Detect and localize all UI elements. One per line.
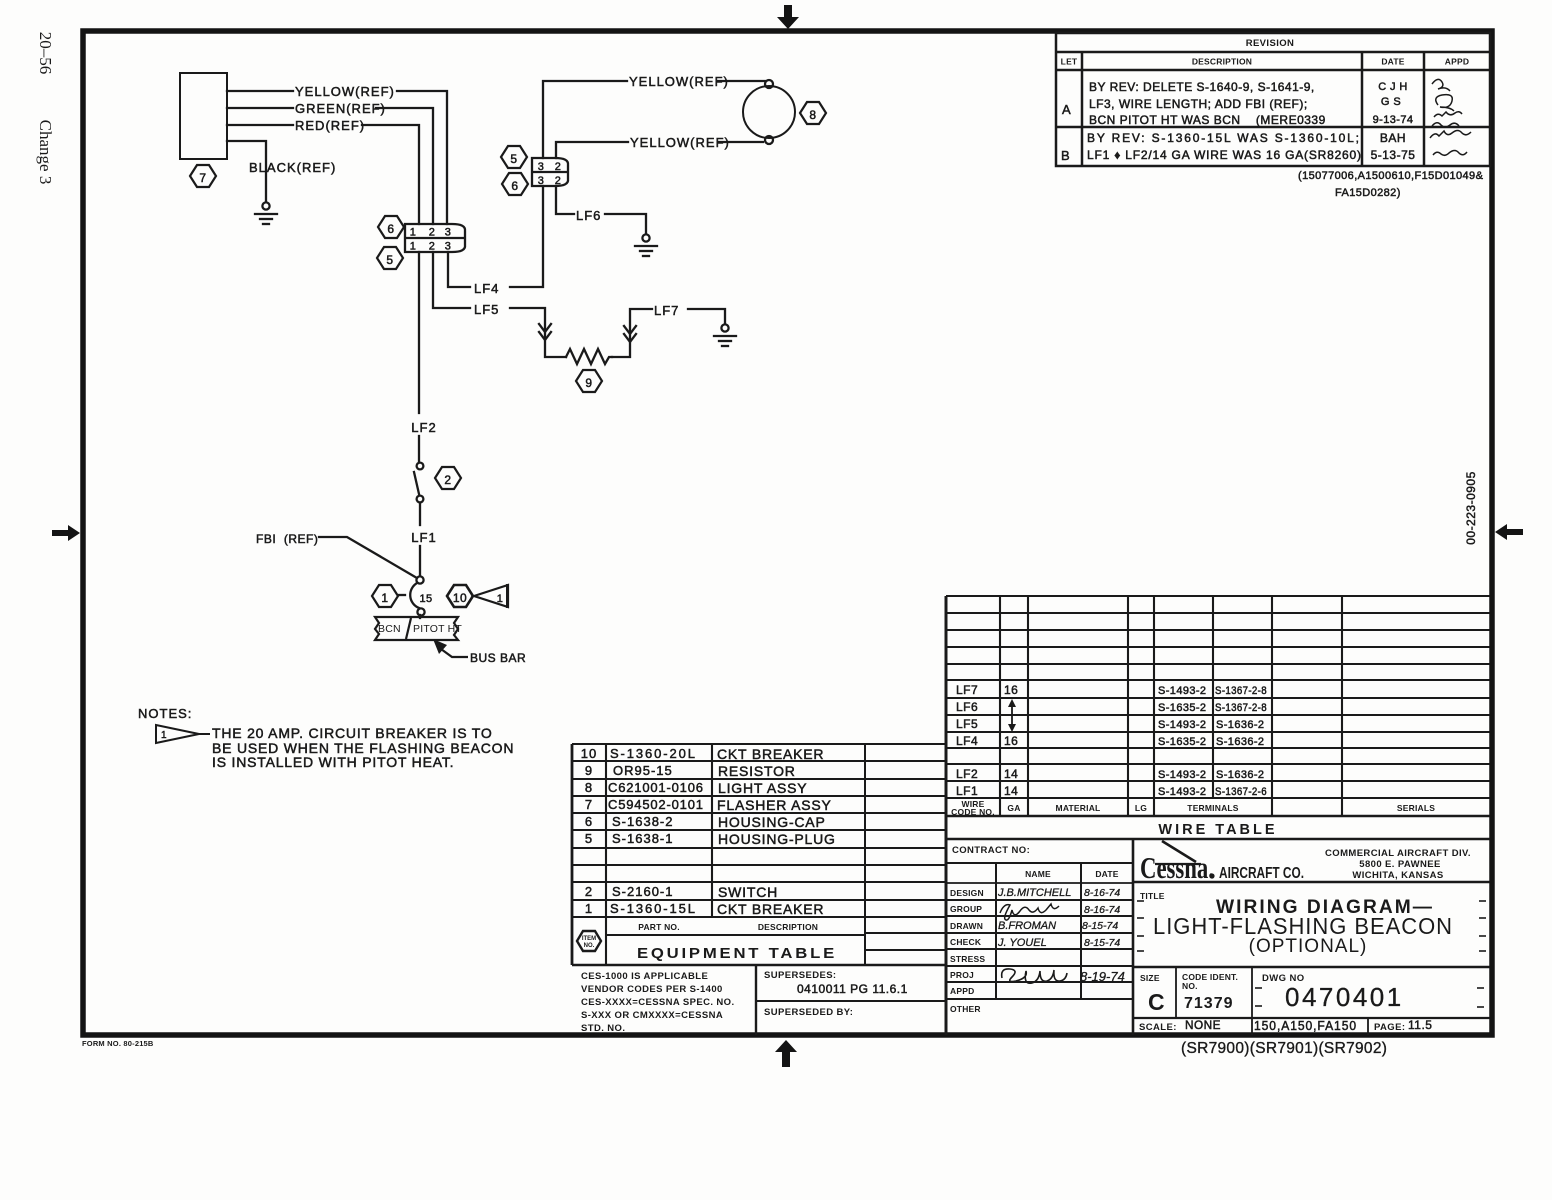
svg-text:15: 15 bbox=[419, 593, 432, 605]
svg-text:00-223-0905: 00-223-0905 bbox=[1464, 471, 1478, 545]
svg-text:STD. NO.: STD. NO. bbox=[581, 1023, 625, 1034]
svg-text:NO.: NO. bbox=[584, 943, 595, 949]
svg-text:DRAWN: DRAWN bbox=[950, 921, 983, 931]
svg-text:1: 1 bbox=[497, 593, 504, 605]
svg-text:8: 8 bbox=[585, 780, 593, 795]
svg-text:7: 7 bbox=[585, 797, 593, 812]
svg-text:APPD: APPD bbox=[1445, 57, 1469, 67]
svg-text:20–56: 20–56 bbox=[36, 32, 55, 75]
svg-text:AIRCRAFT CO.: AIRCRAFT CO. bbox=[1219, 865, 1304, 882]
svg-text:CKT BREAKER: CKT BREAKER bbox=[717, 901, 824, 917]
svg-text:2: 2 bbox=[555, 161, 562, 173]
svg-text:HOUSING-CAP: HOUSING-CAP bbox=[718, 814, 826, 830]
svg-text:GREEN(REF): GREEN(REF) bbox=[295, 101, 386, 116]
svg-text:1: 1 bbox=[410, 227, 417, 239]
svg-text:BY REV: DELETE S-1640-9, S-164: BY REV: DELETE S-1640-9, S-1641-9, bbox=[1089, 80, 1315, 94]
svg-text:71379: 71379 bbox=[1184, 995, 1234, 1012]
svg-text:8-19-74: 8-19-74 bbox=[1080, 969, 1125, 984]
svg-text:LF4: LF4 bbox=[956, 734, 978, 748]
svg-text:APPD: APPD bbox=[950, 986, 974, 996]
svg-text:J.B.MITCHELL: J.B.MITCHELL bbox=[997, 887, 1071, 899]
svg-text:S-1636-2: S-1636-2 bbox=[1216, 736, 1264, 748]
svg-text:FLASHER ASSY: FLASHER ASSY bbox=[717, 797, 832, 813]
svg-text:LF1 ♦ LF2/14 GA WIRE WAS 16 GA: LF1 ♦ LF2/14 GA WIRE WAS 16 GA(SR8260) bbox=[1087, 148, 1361, 162]
svg-text:DESCRIPTION: DESCRIPTION bbox=[758, 922, 818, 932]
svg-text:1: 1 bbox=[161, 730, 167, 741]
svg-text:5: 5 bbox=[585, 831, 593, 846]
svg-text:S-1635-2: S-1635-2 bbox=[1158, 736, 1206, 748]
svg-text:2: 2 bbox=[585, 884, 593, 899]
svg-text:SWITCH: SWITCH bbox=[718, 884, 778, 900]
svg-text:TERMINALS: TERMINALS bbox=[1187, 803, 1239, 813]
svg-text:8: 8 bbox=[809, 108, 816, 122]
svg-text:DESCRIPTION: DESCRIPTION bbox=[1192, 57, 1252, 67]
svg-text:0470401: 0470401 bbox=[1285, 982, 1404, 1012]
svg-text:S-1638-1: S-1638-1 bbox=[612, 831, 673, 846]
svg-text:2: 2 bbox=[429, 227, 436, 239]
svg-text:3: 3 bbox=[538, 161, 545, 173]
svg-text:1: 1 bbox=[381, 591, 388, 605]
svg-text:LF4: LF4 bbox=[474, 281, 499, 296]
svg-text:BY REV: S-1360-15L WAS S-1360-: BY REV: S-1360-15L WAS S-1360-10L; bbox=[1087, 131, 1359, 145]
svg-text:BUS BAR: BUS BAR bbox=[470, 651, 526, 665]
svg-text:DESIGN: DESIGN bbox=[950, 888, 984, 898]
svg-text:C594502-0101: C594502-0101 bbox=[608, 797, 704, 812]
svg-text:11.5: 11.5 bbox=[1408, 1018, 1432, 1032]
svg-text:S-1636-2: S-1636-2 bbox=[1216, 719, 1264, 731]
svg-text:3: 3 bbox=[445, 227, 452, 239]
svg-text:YELLOW(REF): YELLOW(REF) bbox=[629, 74, 729, 89]
svg-text:VENDOR CODES PER S-1400: VENDOR CODES PER S-1400 bbox=[581, 984, 723, 995]
svg-text:9: 9 bbox=[585, 763, 593, 778]
svg-text:LET: LET bbox=[1061, 57, 1078, 67]
svg-text:TITLE: TITLE bbox=[1140, 891, 1165, 901]
svg-text:OTHER: OTHER bbox=[950, 1004, 981, 1014]
svg-text:S-XXX OR CMXXXX=CESSNA: S-XXX OR CMXXXX=CESSNA bbox=[581, 1010, 723, 1021]
svg-text:5: 5 bbox=[510, 152, 517, 166]
svg-text:HOUSING-PLUG: HOUSING-PLUG bbox=[718, 831, 836, 847]
svg-text:9: 9 bbox=[585, 376, 592, 390]
svg-text:DATE: DATE bbox=[1095, 869, 1118, 879]
svg-text:YELLOW(REF): YELLOW(REF) bbox=[295, 84, 395, 99]
svg-text:BCN: BCN bbox=[378, 623, 401, 635]
svg-text:NAME: NAME bbox=[1025, 869, 1051, 879]
svg-text:G S: G S bbox=[1381, 96, 1401, 108]
svg-text:IS INSTALLED WITH PITOT HEAT.: IS INSTALLED WITH PITOT HEAT. bbox=[212, 754, 454, 770]
svg-text:LG: LG bbox=[1135, 803, 1147, 813]
svg-text:PITOT HT: PITOT HT bbox=[413, 623, 462, 635]
svg-text:WICHITA, KANSAS: WICHITA, KANSAS bbox=[1352, 870, 1443, 881]
svg-text:5800 E. PAWNEE: 5800 E. PAWNEE bbox=[1359, 859, 1440, 870]
svg-text:RED(REF): RED(REF) bbox=[295, 118, 365, 133]
svg-text:RESISTOR: RESISTOR bbox=[718, 763, 796, 779]
svg-text:EQUIPMENT TABLE: EQUIPMENT TABLE bbox=[637, 945, 837, 962]
svg-text:CES-XXXX=CESSNA SPEC. NO.: CES-XXXX=CESSNA SPEC. NO. bbox=[581, 997, 735, 1008]
svg-text:CKT BREAKER: CKT BREAKER bbox=[717, 746, 824, 762]
svg-text:MATERIAL: MATERIAL bbox=[1056, 803, 1101, 813]
svg-text:PROJ: PROJ bbox=[950, 970, 974, 980]
svg-text:0410011 PG 11.6.1: 0410011 PG 11.6.1 bbox=[797, 982, 908, 996]
svg-text:8-16-74: 8-16-74 bbox=[1084, 887, 1120, 899]
svg-text:CONTRACT NO:: CONTRACT NO: bbox=[952, 845, 1030, 856]
svg-text:S-1493-2: S-1493-2 bbox=[1158, 685, 1206, 697]
svg-text:S-1360-15L: S-1360-15L bbox=[610, 901, 696, 916]
svg-text:S-2160-1: S-2160-1 bbox=[612, 884, 673, 899]
svg-text:6: 6 bbox=[585, 814, 593, 829]
svg-text:9-13-74: 9-13-74 bbox=[1373, 114, 1414, 126]
svg-text:LF5: LF5 bbox=[956, 717, 978, 731]
svg-text:SCALE:: SCALE: bbox=[1139, 1022, 1177, 1033]
svg-text:7: 7 bbox=[199, 171, 206, 185]
svg-text:S-1367-2-8: S-1367-2-8 bbox=[1215, 702, 1267, 714]
svg-text:Cessna.: Cessna. bbox=[1140, 850, 1214, 885]
svg-text:6: 6 bbox=[387, 222, 394, 236]
svg-text:SERIALS: SERIALS bbox=[1397, 803, 1435, 813]
svg-text:C621001-0106: C621001-0106 bbox=[608, 780, 704, 795]
svg-text:3: 3 bbox=[538, 175, 545, 187]
svg-text:8-15-74: 8-15-74 bbox=[1082, 920, 1118, 932]
svg-text:S-1493-2: S-1493-2 bbox=[1158, 769, 1206, 781]
svg-text:LF7: LF7 bbox=[956, 683, 978, 697]
svg-text:J. YOUEL: J. YOUEL bbox=[997, 937, 1047, 949]
svg-text:LF6: LF6 bbox=[576, 208, 601, 223]
svg-text:2: 2 bbox=[444, 473, 451, 487]
svg-text:S-1360-20L: S-1360-20L bbox=[610, 746, 696, 761]
svg-text:A: A bbox=[1062, 102, 1072, 117]
svg-text:LF3, WIRE LENGTH; ADD FBI (REF: LF3, WIRE LENGTH; ADD FBI (REF); bbox=[1089, 97, 1308, 111]
svg-text:3: 3 bbox=[445, 241, 452, 253]
svg-text:CES-1000 IS APPLICABLE: CES-1000 IS APPLICABLE bbox=[581, 971, 708, 982]
svg-text:ITEM: ITEM bbox=[582, 936, 596, 942]
svg-text:6: 6 bbox=[511, 179, 518, 193]
svg-text:BLACK(REF): BLACK(REF) bbox=[249, 160, 336, 175]
svg-text:NONE: NONE bbox=[1185, 1018, 1221, 1032]
svg-text:S-1636-2: S-1636-2 bbox=[1216, 769, 1264, 781]
svg-text:10: 10 bbox=[453, 591, 467, 605]
svg-text:LF6: LF6 bbox=[956, 700, 978, 714]
svg-text:C J H: C J H bbox=[1378, 81, 1408, 93]
svg-text:PART NO.: PART NO. bbox=[638, 922, 680, 932]
svg-text:14: 14 bbox=[1004, 784, 1018, 798]
svg-text:S-1493-2: S-1493-2 bbox=[1158, 786, 1206, 798]
svg-text:LF1: LF1 bbox=[956, 784, 978, 798]
svg-text:COMMERCIAL AIRCRAFT DIV.: COMMERCIAL AIRCRAFT DIV. bbox=[1325, 848, 1471, 859]
svg-text:SUPERSEDES:: SUPERSEDES: bbox=[764, 970, 837, 981]
svg-text:LF1: LF1 bbox=[411, 530, 436, 545]
svg-text:SUPERSEDED BY:: SUPERSEDED BY: bbox=[764, 1007, 853, 1018]
svg-text:LF7: LF7 bbox=[654, 303, 679, 318]
svg-text:GA: GA bbox=[1007, 803, 1020, 813]
svg-text:16: 16 bbox=[1004, 683, 1018, 697]
svg-text:S-1493-2: S-1493-2 bbox=[1158, 719, 1206, 731]
svg-text:S-1635-2: S-1635-2 bbox=[1158, 702, 1206, 714]
svg-text:C: C bbox=[1148, 989, 1165, 1015]
svg-text:LF5: LF5 bbox=[474, 302, 499, 317]
svg-text:14: 14 bbox=[1004, 767, 1018, 781]
svg-text:WIRE TABLE: WIRE TABLE bbox=[1158, 822, 1277, 838]
svg-text:Change 3: Change 3 bbox=[36, 120, 55, 185]
svg-text:S-1367-2-6: S-1367-2-6 bbox=[1215, 786, 1267, 798]
svg-text:BCN PITOT HT WAS BCN (MERE0: BCN PITOT HT WAS BCN (MERE0339 bbox=[1089, 113, 1326, 127]
svg-text:(SR7900)(SR7901)(SR7902): (SR7900)(SR7901)(SR7902) bbox=[1181, 1040, 1387, 1057]
svg-text:PAGE:: PAGE: bbox=[1374, 1022, 1405, 1033]
svg-text:S-1367-2-8: S-1367-2-8 bbox=[1215, 685, 1267, 697]
svg-text:NO.: NO. bbox=[1182, 981, 1198, 991]
svg-text:150,A150,FA150: 150,A150,FA150 bbox=[1254, 1018, 1357, 1033]
svg-text:CHECK: CHECK bbox=[950, 937, 982, 947]
svg-text:2: 2 bbox=[429, 241, 436, 253]
svg-text:REVISION: REVISION bbox=[1246, 38, 1295, 49]
svg-text:THE 20 AMP. CIRCUIT BREAKER IS: THE 20 AMP. CIRCUIT BREAKER IS TO bbox=[212, 725, 493, 741]
svg-text:LF2: LF2 bbox=[411, 420, 436, 435]
svg-text:5: 5 bbox=[386, 253, 393, 267]
svg-text:1: 1 bbox=[410, 241, 417, 253]
svg-text:YELLOW(REF): YELLOW(REF) bbox=[630, 135, 730, 150]
svg-text:FORM NO. 80-215B: FORM NO. 80-215B bbox=[82, 1039, 154, 1048]
svg-text:8-15-74: 8-15-74 bbox=[1084, 937, 1120, 949]
svg-text:1: 1 bbox=[585, 901, 593, 916]
svg-text:CODE NO.: CODE NO. bbox=[951, 807, 995, 817]
svg-text:B: B bbox=[1061, 148, 1071, 163]
svg-text:(OPTIONAL): (OPTIONAL) bbox=[1249, 936, 1368, 957]
svg-text:5-13-75: 5-13-75 bbox=[1371, 148, 1416, 162]
svg-text:GROUP: GROUP bbox=[950, 904, 982, 914]
svg-text:DATE: DATE bbox=[1381, 57, 1404, 67]
svg-text:10: 10 bbox=[581, 746, 597, 761]
svg-text:8-16-74: 8-16-74 bbox=[1084, 904, 1120, 916]
svg-text:OR95-15: OR95-15 bbox=[613, 763, 673, 778]
svg-text:S-1638-2: S-1638-2 bbox=[612, 814, 673, 829]
svg-text:BAH: BAH bbox=[1380, 131, 1406, 145]
svg-text:16: 16 bbox=[1004, 734, 1018, 748]
svg-text:SIZE: SIZE bbox=[1140, 973, 1160, 983]
svg-text:LIGHT ASSY: LIGHT ASSY bbox=[718, 780, 807, 796]
svg-text:LF2: LF2 bbox=[956, 767, 978, 781]
svg-text:STRESS: STRESS bbox=[950, 954, 985, 964]
svg-text:FA15D0282): FA15D0282) bbox=[1335, 187, 1401, 199]
svg-text:NOTES:: NOTES: bbox=[138, 706, 192, 721]
svg-text:FBI (REF): FBI (REF) bbox=[256, 532, 318, 546]
svg-text:B.FROMAN: B.FROMAN bbox=[998, 920, 1056, 932]
svg-text:(15077006,A1500610,F15D01049&: (15077006,A1500610,F15D01049& bbox=[1298, 170, 1484, 182]
